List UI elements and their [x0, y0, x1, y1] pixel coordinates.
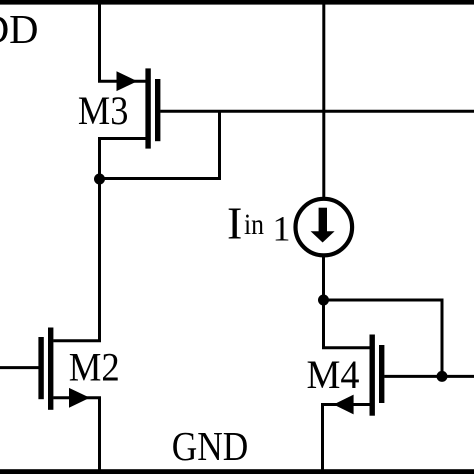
svg-text:M2: M2	[69, 345, 120, 390]
current source Iin1	[296, 199, 353, 256]
svg-text:I: I	[227, 198, 242, 249]
wire M2 source lead to GND	[53, 398, 99, 472]
wire gate feedback to node A	[100, 111, 220, 178]
node C junction dot	[437, 371, 448, 382]
svg-text:GND: GND	[172, 423, 249, 469]
svg-text:VDD: VDD	[0, 6, 39, 52]
GND power rail	[0, 469, 474, 474]
svg-text:M4: M4	[307, 352, 360, 397]
svg-text:M3: M3	[78, 88, 128, 133]
Iin1 label	[227, 198, 291, 249]
wire node A to M2 drain	[53, 179, 99, 341]
M3 source arrow	[117, 71, 138, 91]
svg-text:in: in	[244, 208, 264, 241]
node A junction dot	[94, 174, 105, 185]
wire current source to node B	[322, 256, 325, 300]
transistor M4	[370, 335, 385, 416]
M4 source arrow	[334, 395, 354, 415]
wire M2 gate lead to left edge	[0, 366, 39, 369]
wire M4 gate lead to right edge	[384, 375, 474, 378]
wire M4 source lead to GND	[323, 405, 370, 473]
wire node B to node C	[324, 300, 443, 376]
M2 source arrow	[69, 388, 90, 408]
node B junction dot	[318, 295, 329, 306]
VDD power rail	[0, 0, 474, 5]
transistor M2	[38, 328, 53, 410]
transistor M3	[145, 68, 160, 148]
wire M3 drain lead	[100, 139, 146, 178]
svg-text:1: 1	[273, 209, 291, 249]
wire M3 gate lead to right edge	[160, 110, 474, 113]
wire VDD rail to current source	[322, 2, 325, 198]
wire VDD rail to M3 source	[100, 2, 146, 81]
wire node B to M4 drain	[324, 300, 370, 348]
